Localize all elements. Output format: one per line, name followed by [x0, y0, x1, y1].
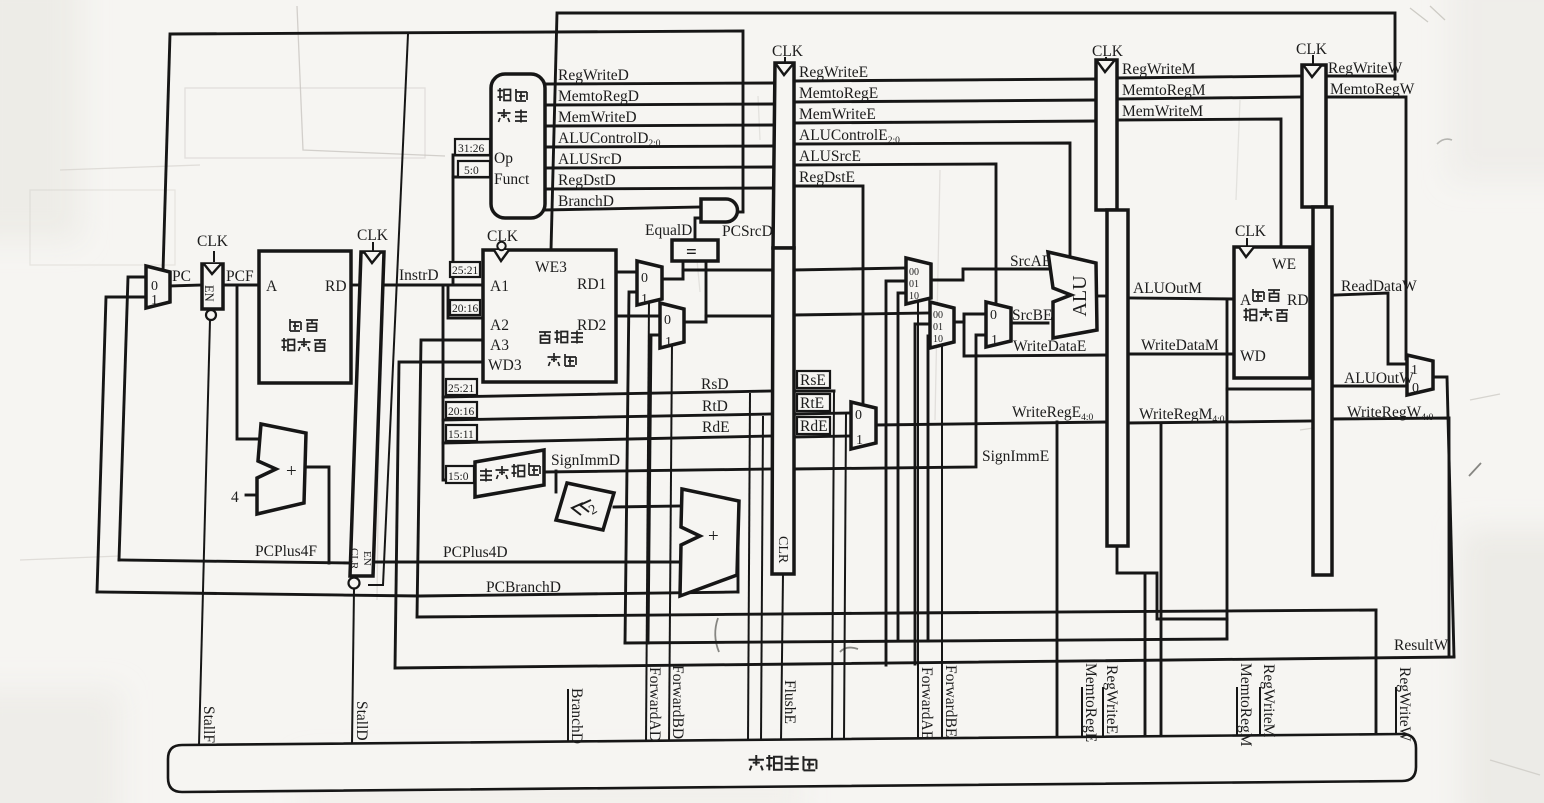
svg-text:ForwardAD: ForwardAD	[646, 667, 663, 742]
svg-text:RtE: RtE	[800, 395, 824, 412]
svg-text:ForwardBD: ForwardBD	[669, 665, 686, 739]
clock triangle and bubble register file	[494, 250, 509, 261]
svg-text:1: 1	[665, 335, 672, 350]
bit slice box 31:26	[455, 139, 490, 155]
wire CLK tick W register	[1312, 56, 1314, 65]
text instruction memory hanzi	[290, 319, 301, 331]
svg-text:FlushE: FlushE	[781, 680, 798, 724]
svg-text:0: 0	[1412, 381, 1419, 396]
svg-text:PCPlus4D: PCPlus4D	[443, 544, 508, 561]
wire ALUOutM under data memory to W register	[1227, 388, 1313, 391]
svg-text:MemtoRegE: MemtoRegE	[1082, 663, 1099, 742]
+4 adder	[257, 424, 306, 514]
wire PCF to instruction memory	[223, 284, 259, 287]
wire SignImmD row	[544, 469, 772, 472]
svg-text:WriteRegM4:0: WriteRegM4:0	[1139, 406, 1225, 425]
svg-text:PCSrcD: PCSrcD	[722, 223, 773, 240]
wire WriteRegE row from RdE mux to M register	[876, 422, 1107, 425]
svg-text:MemtoRegM: MemtoRegM	[1122, 82, 1206, 99]
wire RdE row into RdE mux	[794, 436, 851, 437]
svg-text:10: 10	[909, 291, 919, 302]
svg-text:PC: PC	[172, 268, 191, 285]
svg-text:ForwardBE: ForwardBE	[942, 665, 959, 737]
wire shifter output to branch adder	[614, 506, 681, 507]
svg-text:SignImmD: SignImmD	[551, 452, 620, 469]
E mux A (ForwardAE)	[906, 258, 931, 304]
equality comparator box	[672, 240, 718, 261]
wire CLK tick E register	[784, 58, 786, 64]
register file	[483, 250, 616, 382]
svg-text:A: A	[266, 278, 278, 295]
wire InstrD from IF/ID register to register file A1	[383, 284, 483, 287]
svg-text:SignImmE: SignImmE	[982, 448, 1049, 465]
wire SrcBE mux output into ALU	[1011, 322, 1048, 325]
svg-text:RegWriteM: RegWriteM	[1122, 61, 1196, 78]
svg-text:RegWriteW: RegWriteW	[1396, 667, 1413, 742]
svg-text:1: 1	[151, 293, 158, 308]
text hazard unit hanzi	[749, 755, 817, 771]
svg-text:15:11: 15:11	[448, 429, 474, 441]
svg-text:RegWriteM: RegWriteM	[1260, 664, 1277, 738]
svg-text:CLK: CLK	[487, 228, 519, 245]
svg-text:MemWriteE: MemWriteE	[799, 106, 876, 123]
svg-text:ResultW: ResultW	[1394, 637, 1449, 654]
svg-text:RD1: RD1	[577, 276, 606, 293]
wire RegWriteW stub into hazard unit	[1395, 688, 1397, 735]
svg-text:CLK: CLK	[357, 227, 389, 244]
wire ALUSrcD/E row	[545, 167, 775, 168]
wire MemtoRegD/E/M/W row	[545, 104, 775, 105]
svg-text:00: 00	[933, 310, 943, 321]
wire RsD row	[443, 391, 772, 397]
wire PCF tap down to +4 adder	[237, 285, 259, 439]
bit slice box 25:21 RsD	[446, 379, 477, 395]
svg-text:RtD: RtD	[702, 398, 728, 415]
svg-text:CLK: CLK	[772, 43, 804, 60]
svg-text:RsE: RsE	[800, 372, 826, 389]
svg-text:ALUOutM: ALUOutM	[1133, 280, 1202, 297]
wire BranchD stub into hazard unit	[567, 690, 569, 742]
wire branch adder output down to PCBranchD	[737, 530, 740, 592]
wire InstrD tap to A2	[448, 285, 483, 318]
label box RtE	[797, 394, 830, 411]
wire E mux A input10 riser from ALUOutM	[898, 293, 906, 641]
wire RegWriteW top loop to register file WE3	[551, 13, 1395, 250]
D mux B (ForwardBD)	[660, 303, 684, 348]
svg-text:BranchD: BranchD	[558, 193, 614, 210]
svg-text:CLR: CLR	[775, 536, 790, 564]
svg-text:1: 1	[641, 292, 648, 307]
label box RdE	[797, 417, 830, 434]
wire ReadDataW to result mux input1	[1310, 293, 1407, 364]
clock triangle E/M register	[1097, 61, 1114, 72]
PC register EN bubble	[206, 310, 216, 320]
E/M pipeline register upper	[1096, 60, 1117, 210]
svg-text:MemWriteD: MemWriteD	[558, 109, 637, 126]
IF/ID pipeline register	[350, 252, 384, 576]
wire ALUControlD/E row	[545, 146, 775, 147]
svg-text:RdE: RdE	[702, 419, 730, 436]
wire SignImmD tap into shifter	[555, 471, 558, 492]
svg-text:4: 4	[231, 489, 239, 506]
wire SignImmE row and riser to SrcB mux input1	[794, 335, 986, 469]
wire RtE tap to hazard unit	[844, 414, 846, 740]
wire InstrD riser down to bit slices	[443, 285, 475, 480]
svg-text:1: 1	[1411, 363, 1418, 378]
wire ForwardBE select from E mux B	[941, 344, 943, 739]
wire AND output to PCSrcD riser	[736, 211, 743, 214]
E/M pipeline register lower	[1107, 210, 1128, 546]
data memory	[1234, 247, 1310, 378]
bit slice box 15:0	[446, 466, 474, 483]
bit slice box 15:11 RdD	[446, 425, 477, 441]
svg-text:WriteRegW4:0: WriteRegW4:0	[1347, 404, 1434, 423]
svg-text:RegWriteE: RegWriteE	[1103, 665, 1120, 734]
svg-text:01: 01	[933, 322, 943, 333]
instruction memory	[259, 251, 351, 383]
svg-text:EN: EN	[202, 285, 216, 302]
control unit	[491, 74, 545, 218]
svg-text:MemWriteM: MemWriteM	[1122, 103, 1203, 120]
svg-text:RD2: RD2	[577, 317, 606, 334]
wire RtD row	[443, 414, 772, 420]
svg-text:0: 0	[641, 271, 648, 286]
wire result mux output ResultW drop	[1433, 377, 1454, 657]
wire ResultW feedback row to WD3 riser	[395, 362, 1454, 668]
svg-text:31:26: 31:26	[458, 143, 484, 155]
text register file hanzi	[539, 332, 551, 343]
wire RdD row	[443, 436, 772, 443]
svg-text:BranchD: BranchD	[568, 688, 585, 744]
wire +4 adder output down to PCPlus4F	[306, 467, 329, 563]
wire CLK tick M register	[1105, 58, 1107, 64]
svg-text:WD: WD	[1240, 348, 1266, 365]
wire comparator input taps	[682, 261, 685, 279]
bit slice box 25:21 A1	[450, 262, 480, 277]
wire M register bottom exit branch to ALUOutM drop	[1145, 573, 1227, 619]
svg-text:ALUOutW: ALUOutW	[1344, 370, 1414, 387]
svg-text:EqualD: EqualD	[645, 222, 692, 239]
svg-text:MemtoRegM: MemtoRegM	[1237, 663, 1254, 747]
svg-text:RegWriteE: RegWriteE	[799, 64, 868, 81]
D/E pipeline register upper	[773, 63, 794, 248]
D mux A (ForwardAD)	[637, 261, 662, 305]
wire SrcA row D mux A output to E register	[662, 270, 772, 279]
clock triangle IF/ID register	[364, 252, 381, 263]
svg-text:+: +	[708, 526, 719, 547]
svg-text:1: 1	[991, 333, 998, 348]
wire RtD tap to hazard unit	[761, 417, 763, 741]
wire PCPlus4D to branch adder	[374, 561, 681, 564]
wire constant 4 into adder	[246, 494, 259, 497]
bit slice box 5:0	[458, 161, 490, 177]
IF/ID EN bubble	[349, 578, 360, 589]
svg-text:25:21: 25:21	[452, 265, 478, 277]
svg-text:=: =	[686, 242, 697, 263]
D/E pipeline register lower	[772, 248, 794, 574]
wire FlushE from E register CLR to hazard unit	[781, 574, 783, 741]
svg-text:0: 0	[151, 279, 158, 294]
svg-text:ALUSrcE: ALUSrcE	[799, 148, 861, 165]
svg-text:0: 0	[855, 408, 862, 423]
label box RsE	[797, 371, 830, 388]
wire CLK tick PC	[213, 252, 215, 261]
wire SrcBE from E mux B jog	[954, 314, 986, 322]
svg-text:15:0: 15:0	[448, 471, 469, 483]
wire CLK tick register file	[501, 244, 503, 250]
wire RtE row into RdE mux	[794, 413, 851, 414]
E mux B (ForwardBE)	[930, 302, 954, 348]
wire RsE row	[794, 390, 834, 393]
svg-text:CLK: CLK	[1235, 223, 1267, 240]
svg-text:0: 0	[990, 308, 997, 323]
svg-text:MemtoRegW: MemtoRegW	[1330, 81, 1415, 98]
svg-text:CLR: CLR	[348, 548, 360, 570]
svg-text:PCPlus4F: PCPlus4F	[255, 543, 317, 560]
M/W pipeline register lower	[1313, 207, 1332, 575]
wire WriteDataE tap down and row to M register	[964, 314, 1107, 356]
wire WriteDataM row to data memory WD	[1128, 353, 1234, 356]
PC register	[202, 264, 223, 309]
SrcB mux (ALUSrc)	[986, 302, 1011, 347]
clock triangle D/E register	[776, 64, 793, 75]
wire PCPlus4F riser to PC mux input 0	[119, 277, 146, 560]
wire E mux A input01 riser from ResultW	[886, 281, 906, 665]
svg-text:+: +	[286, 461, 297, 482]
wire ALUOutM drop to feedback	[1226, 299, 1229, 638]
svg-text:01: 01	[909, 279, 919, 290]
svg-text:EN: EN	[361, 551, 373, 566]
wire PCPlus4F into IF/ID register	[119, 560, 352, 563]
wire WriteRegW row from W register	[1332, 418, 1449, 655]
wire D mux B input1 riser	[648, 335, 660, 643]
svg-text:WE: WE	[1272, 256, 1296, 273]
wire PC mux output PC	[170, 285, 202, 286]
PC mux	[146, 266, 170, 308]
svg-text:WriteDataM: WriteDataM	[1141, 337, 1219, 354]
clock triangle PC register	[204, 264, 221, 274]
svg-text:20:16: 20:16	[448, 406, 474, 418]
M/W pipeline register upper	[1302, 65, 1326, 207]
svg-text:ReadDataW: ReadDataW	[1341, 278, 1417, 295]
svg-text:MemtoRegD: MemtoRegD	[558, 88, 639, 105]
wire CLK tick IF/ID	[372, 243, 374, 252]
wire M register bottom exit to hazard unit	[1117, 546, 1145, 737]
svg-text:ForwardAE: ForwardAE	[918, 667, 935, 740]
wire D mux A input1 riser	[625, 292, 637, 643]
wire RD1 to D mux A	[616, 271, 637, 274]
wire instruction memory RD to IF/ID register	[351, 284, 361, 287]
svg-text:ALUControlD2:0: ALUControlD2:0	[558, 130, 661, 149]
svg-text:0: 0	[664, 313, 671, 328]
wire ALUOutM feedback row	[625, 639, 1227, 643]
svg-text:20:16: 20:16	[452, 303, 478, 315]
wire MemtoRegE stub into hazard unit	[1081, 688, 1083, 738]
branch adder	[680, 489, 739, 596]
text data memory hanzi	[1253, 289, 1264, 301]
svg-text:SrcBE: SrcBE	[1012, 307, 1052, 324]
RdE/RtE mux (RegDst)	[851, 402, 876, 449]
wire Funct stub into control unit	[453, 176, 491, 179]
wire RegWriteD/E/M/W row	[545, 83, 775, 84]
svg-text:RD: RD	[325, 278, 347, 295]
wire E mux B input10 riser from ALUOutM	[928, 336, 930, 641]
svg-text:A1: A1	[490, 278, 509, 295]
svg-text:ALUControlE2:0: ALUControlE2:0	[799, 127, 900, 146]
wire PCSrcD loop to PC mux select	[163, 31, 743, 271]
svg-text:A: A	[1240, 292, 1252, 309]
wire CLK tick data memory	[1246, 239, 1248, 247]
shifter <<2	[556, 483, 614, 530]
wire SrcA row E side to E mux A	[794, 268, 906, 270]
clock triangle M/W register	[1304, 66, 1321, 77]
wire WriteRegM row to W register	[1128, 421, 1313, 423]
svg-text:PCF: PCF	[226, 268, 254, 285]
bit slice box 20:16 A2	[450, 300, 480, 315]
wire ForwardAD select from D mux A	[646, 301, 649, 742]
svg-text:00: 00	[909, 267, 919, 278]
wire InstrD riser to control unit Op	[453, 155, 491, 285]
svg-text:RsD: RsD	[701, 376, 729, 393]
wire MemWriteD/E/M row	[545, 125, 775, 126]
wire SrcB row D mux B output to E register	[684, 316, 772, 322]
svg-text:ALU: ALU	[1069, 275, 1091, 317]
wire ALU output to M register	[1097, 295, 1107, 298]
svg-text:5:0: 5:0	[464, 165, 479, 177]
svg-text:A2: A2	[490, 317, 509, 334]
text sign extend hanzi	[480, 469, 492, 482]
wire MemtoRegM stub into hazard unit	[1236, 688, 1238, 737]
wire PCSrcD branch down to IF/ID CLR	[369, 34, 408, 585]
wire StallF from PC register EN to hazard unit	[199, 320, 210, 745]
wire ForwardBD select from D mux B	[669, 344, 672, 742]
svg-text:WriteDataE: WriteDataE	[1013, 338, 1086, 355]
wire StallD from IF/ID EN to hazard unit	[352, 589, 354, 744]
svg-text:Op: Op	[494, 150, 513, 167]
wire RegDstD/E row	[545, 188, 775, 189]
svg-text:CLK: CLK	[1296, 41, 1328, 58]
wire PCBranchD riser to PC mux input 1	[97, 297, 146, 592]
wire RD2 to D mux B	[616, 315, 660, 318]
wire WriteRegW feedback drop to hazard unit	[1375, 610, 1378, 735]
svg-text:WD3: WD3	[488, 357, 522, 374]
sign extend box	[475, 450, 544, 497]
svg-text:10: 10	[933, 334, 943, 345]
wire RsE tap to hazard unit	[832, 391, 834, 740]
svg-text:CLK: CLK	[197, 233, 229, 250]
wire PCBranchD long row	[97, 592, 738, 596]
hazard unit	[168, 734, 1416, 792]
svg-text:RegDstD: RegDstD	[558, 172, 616, 189]
bit slice box 20:16 RtD	[446, 402, 477, 418]
svg-text:ALUSrcD: ALUSrcD	[558, 151, 622, 168]
wire SrcAE from E mux A to ALU	[931, 269, 1048, 280]
wire RegWriteM stub into hazard unit	[1259, 688, 1261, 736]
svg-text:SrcAE: SrcAE	[1010, 253, 1051, 270]
svg-text:RegWriteW: RegWriteW	[1328, 60, 1403, 77]
wire BranchD to AND gate	[545, 207, 701, 210]
wire ALUOutW to result mux input0	[1332, 385, 1407, 388]
svg-text:RD: RD	[1287, 292, 1309, 309]
wire WriteRegW feedback row to A3 riser	[417, 340, 1376, 617]
wire WriteRegE tap down to hazard unit	[1056, 422, 1059, 738]
label shift left 2	[572, 500, 591, 515]
svg-text:WE3: WE3	[535, 259, 567, 276]
svg-text:1: 1	[856, 433, 863, 448]
svg-text:StallD: StallD	[353, 701, 370, 741]
svg-text:CLK: CLK	[1092, 43, 1124, 60]
svg-text:InstrD: InstrD	[399, 267, 439, 284]
svg-text:25:21: 25:21	[448, 383, 474, 395]
svg-text:RegWriteD: RegWriteD	[558, 67, 629, 84]
svg-text:PCBranchD: PCBranchD	[486, 579, 561, 596]
result mux (MemtoReg)	[1407, 355, 1433, 395]
wire WriteRegM tap down to hazard unit	[1160, 423, 1163, 737]
svg-text:MemtoRegE: MemtoRegE	[799, 85, 878, 102]
clock triangle data memory	[1239, 247, 1254, 257]
svg-text:RdE: RdE	[800, 418, 828, 435]
svg-text:RegDstE: RegDstE	[799, 169, 855, 186]
wire EqualD comparator to AND gate	[695, 218, 701, 240]
svg-text:A3: A3	[490, 337, 509, 354]
wire RsD tap to hazard unit	[748, 394, 750, 741]
wire E mux B input01 riser from ResultW	[915, 324, 930, 664]
svg-text:StallF: StallF	[200, 706, 217, 743]
wire RegWriteE stub into hazard unit	[1102, 688, 1104, 738]
AND gate	[701, 199, 738, 222]
ALU	[1048, 252, 1097, 338]
wire SrcB row E side to E mux B	[794, 313, 930, 315]
svg-text:Funct: Funct	[494, 171, 530, 188]
wire ForwardAE select from E mux A	[917, 300, 919, 739]
text control unit hanzi	[498, 88, 511, 101]
svg-text:WriteRegE4:0: WriteRegE4:0	[1012, 404, 1093, 423]
wire ALUOutM row to data memory A	[1128, 298, 1234, 299]
